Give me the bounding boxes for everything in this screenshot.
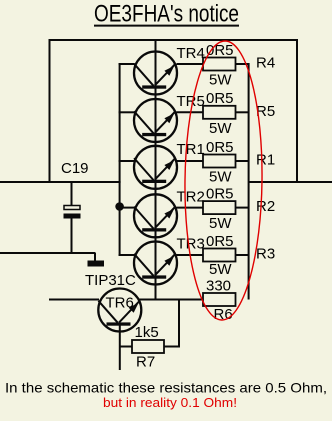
svg-text:0R5: 0R5 (206, 90, 234, 107)
svg-text:TR4: TR4 (177, 45, 205, 62)
svg-text:TR1: TR1 (177, 141, 205, 158)
svg-text:0R5: 0R5 (206, 139, 234, 156)
svg-text:In the schematic these resista: In the schematic these resistances are 0… (5, 380, 327, 395)
svg-text:1k5: 1k5 (135, 324, 159, 341)
svg-text:TR6: TR6 (106, 295, 134, 312)
svg-text:TR2: TR2 (177, 188, 205, 205)
svg-text:5W: 5W (209, 169, 232, 186)
svg-text:0R5: 0R5 (206, 42, 234, 59)
svg-text:5W: 5W (209, 72, 232, 89)
svg-text:0R5: 0R5 (206, 233, 234, 250)
svg-text:but in reality 0.1 Ohm!: but in reality 0.1 Ohm! (103, 395, 237, 410)
svg-text:5W: 5W (209, 120, 232, 137)
svg-text:5W: 5W (209, 215, 232, 232)
svg-text:R7: R7 (136, 354, 155, 371)
svg-text:TR5: TR5 (177, 93, 205, 110)
svg-text:R2: R2 (256, 198, 275, 215)
svg-text:R1: R1 (256, 152, 275, 169)
svg-text:OE3FHA's notice: OE3FHA's notice (94, 0, 239, 27)
svg-text:TR3: TR3 (177, 236, 205, 253)
svg-text:R3: R3 (256, 246, 275, 263)
svg-text:0R5: 0R5 (206, 185, 234, 202)
svg-text:R4: R4 (256, 55, 275, 72)
svg-text:C19: C19 (61, 160, 89, 177)
svg-text:TIP31C: TIP31C (85, 272, 136, 289)
svg-text:330: 330 (206, 278, 231, 295)
svg-text:5W: 5W (209, 261, 232, 278)
